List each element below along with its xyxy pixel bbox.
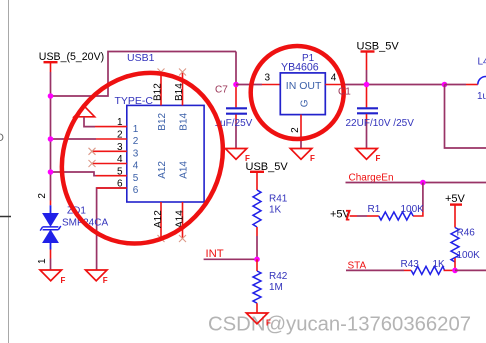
power port +5V (R46) bbox=[445, 193, 466, 228]
svg-text:1: 1 bbox=[37, 258, 48, 264]
wire C7 node to P1 IN bbox=[236, 84, 280, 86]
svg-text:1u: 1u bbox=[477, 91, 486, 102]
markup circle around TYPE-C bbox=[31, 43, 253, 273]
resistor R1 100K bbox=[357, 204, 424, 220]
markup circle around P1 bbox=[251, 46, 344, 139]
pin A12 (bottom, no connect) bbox=[153, 161, 168, 242]
wire pin6 to ground bbox=[97, 188, 127, 270]
svg-text:R41: R41 bbox=[269, 194, 288, 205]
wire L4 branch down-right bbox=[445, 85, 486, 149]
pin A14 (bottom, no connect) bbox=[174, 161, 189, 242]
svg-text:100K: 100K bbox=[457, 250, 481, 261]
power port USB_(5_20V) bbox=[39, 51, 104, 72]
resistor R41 1K bbox=[253, 190, 288, 236]
svg-text:6: 6 bbox=[117, 179, 123, 190]
svg-text:2: 2 bbox=[117, 130, 123, 141]
svg-text:A12: A12 bbox=[153, 210, 164, 228]
svg-text:C7: C7 bbox=[215, 85, 228, 96]
svg-text:F: F bbox=[61, 276, 66, 285]
svg-text:B12: B12 bbox=[152, 83, 163, 101]
wire left rail (USB_(5_20V) vertical) bbox=[50, 72, 52, 201]
ground (R42, F) bbox=[246, 313, 271, 328]
pin 4 (no connect) bbox=[89, 154, 139, 172]
pin 6 bbox=[97, 179, 139, 197]
svg-text:4: 4 bbox=[117, 154, 123, 165]
svg-text:A12: A12 bbox=[157, 161, 168, 179]
pin 2 bbox=[96, 130, 139, 148]
pin B12 (top, no connect) bbox=[152, 69, 168, 131]
svg-text:R46: R46 bbox=[457, 228, 476, 239]
ground (left rail, F) bbox=[40, 270, 66, 285]
svg-text:5: 5 bbox=[117, 166, 123, 177]
svg-text:R42: R42 bbox=[269, 271, 288, 282]
power port +5V (R1) bbox=[330, 208, 357, 220]
pin 3 (no connect) bbox=[89, 142, 139, 160]
junction C7/USB1/P1 bbox=[233, 82, 239, 88]
svg-text:100K: 100K bbox=[401, 204, 425, 215]
pin B14 (top, no connect) bbox=[174, 69, 190, 131]
svg-text:R1: R1 bbox=[368, 204, 381, 215]
wire INT bbox=[204, 258, 257, 260]
wire ChargeEn bbox=[346, 182, 486, 184]
junction INT/R41/R42 bbox=[254, 257, 260, 263]
inductor L4 bbox=[445, 57, 486, 102]
svg-text:1M: 1M bbox=[269, 282, 283, 293]
svg-text:IN OUT: IN OUT bbox=[286, 80, 322, 92]
svg-text:1K: 1K bbox=[433, 259, 446, 270]
resistor R46 100K bbox=[451, 228, 480, 271]
svg-text:D: D bbox=[0, 132, 4, 144]
svg-text:6: 6 bbox=[133, 185, 139, 196]
svg-text:G: G bbox=[299, 99, 310, 107]
svg-text:F: F bbox=[310, 154, 315, 163]
wire pin5 to rail bbox=[51, 172, 97, 176]
capacitor C7 1uF/25V bbox=[215, 85, 253, 149]
power port USB_5V (top) bbox=[357, 40, 400, 84]
junction on rail at USB1 tap bbox=[48, 93, 54, 99]
svg-text:F: F bbox=[266, 319, 271, 328]
ground (P1 pin2, F) bbox=[290, 149, 315, 164]
junction pin2 bbox=[48, 136, 54, 142]
svg-text:USB1: USB1 bbox=[127, 52, 155, 64]
wire ChargeEn to R1 bbox=[422, 183, 424, 211]
svg-text:B12: B12 bbox=[157, 112, 168, 130]
svg-text:F: F bbox=[376, 154, 381, 163]
junction STA/R46 bbox=[452, 268, 458, 274]
svg-text:+5V: +5V bbox=[445, 193, 466, 205]
wire STA (right of junction) bbox=[455, 269, 486, 271]
wire R41 to INT node bbox=[256, 236, 258, 259]
capacitor C1 22UF/10V /25V bbox=[346, 85, 415, 149]
junction C1/USB_5V bbox=[364, 82, 370, 88]
junction pin5 bbox=[48, 169, 54, 175]
svg-text:A14: A14 bbox=[178, 161, 189, 179]
wire rail to USB1 row bbox=[51, 52, 237, 97]
svg-text:3: 3 bbox=[265, 73, 271, 84]
svg-text:3: 3 bbox=[133, 149, 139, 160]
resistor R43 1K bbox=[401, 259, 456, 274]
power port VBUS arrow bbox=[74, 106, 95, 126]
ground (C1, F) bbox=[356, 149, 381, 164]
resistor R42 1M bbox=[253, 259, 288, 313]
svg-text:F: F bbox=[103, 276, 108, 285]
wire P1 pin2 to ground bbox=[300, 136, 302, 149]
svg-text:R43: R43 bbox=[401, 259, 420, 270]
svg-text:TYPE-C: TYPE-C bbox=[115, 95, 154, 107]
svg-text:4: 4 bbox=[331, 73, 337, 84]
TVS diode ZD1 SMF24CA bbox=[37, 193, 108, 270]
wire STA (left of R43) bbox=[346, 269, 404, 271]
junction ChargeEn/R1 bbox=[420, 180, 426, 186]
svg-text:2: 2 bbox=[290, 127, 301, 133]
wire pin2 to rail bbox=[51, 138, 97, 140]
svg-text:YB4606: YB4606 bbox=[281, 62, 319, 74]
pin 1 bbox=[95, 117, 139, 135]
junction L4 branch bbox=[442, 82, 448, 88]
svg-text:1K: 1K bbox=[269, 205, 282, 216]
svg-text:3: 3 bbox=[117, 142, 123, 153]
ground (C7, F) bbox=[225, 149, 250, 164]
svg-text:C1: C1 bbox=[338, 87, 351, 98]
svg-text:L4: L4 bbox=[478, 57, 486, 68]
power port USB_5V (R41) bbox=[246, 161, 289, 190]
svg-text:4: 4 bbox=[133, 161, 139, 172]
svg-text:2: 2 bbox=[37, 193, 48, 199]
svg-text:CSDN@yucan-13760366207: CSDN@yucan-13760366207 bbox=[208, 314, 471, 336]
regulator P1 YB4606 bbox=[265, 53, 344, 136]
connector TYPE-C body bbox=[115, 95, 205, 202]
svg-text:2: 2 bbox=[133, 136, 139, 147]
svg-text:1: 1 bbox=[133, 124, 139, 135]
wire P1 OUT to USB_5V node and L4 bbox=[343, 84, 445, 86]
pin 5 bbox=[96, 166, 139, 184]
svg-text:1: 1 bbox=[117, 117, 123, 128]
svg-text:5: 5 bbox=[133, 173, 139, 184]
svg-text:INT: INT bbox=[206, 248, 224, 260]
svg-text:B14: B14 bbox=[178, 112, 189, 130]
wire USB1 drop to C7 node bbox=[235, 52, 237, 85]
ground (pin6, F) bbox=[86, 270, 108, 285]
svg-text:22UF/10V /25V: 22UF/10V /25V bbox=[346, 118, 415, 129]
svg-text:B14: B14 bbox=[174, 83, 185, 101]
